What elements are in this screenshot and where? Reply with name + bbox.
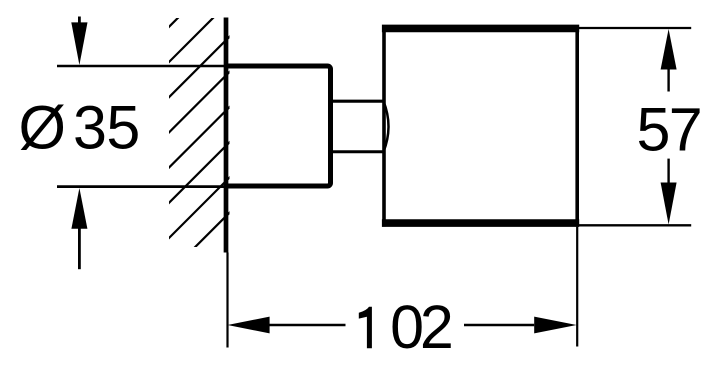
svg-text:Ø: Ø (19, 93, 66, 161)
svg-text:2: 2 (420, 293, 454, 361)
svg-text:3: 3 (73, 93, 107, 161)
svg-text:5: 5 (106, 93, 140, 161)
svg-text:5: 5 (637, 95, 671, 163)
svg-text:7: 7 (669, 95, 703, 163)
